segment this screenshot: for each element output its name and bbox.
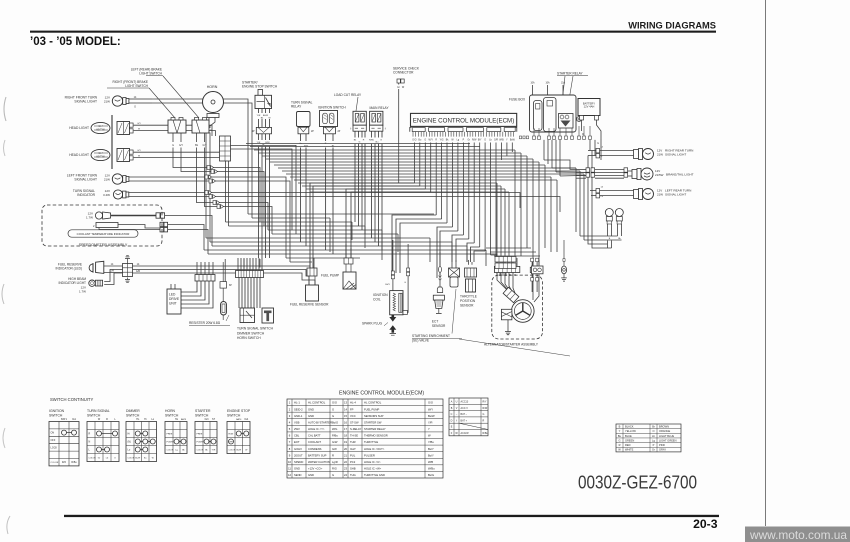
svg-text:BLACK: BLACK — [625, 424, 634, 428]
svg-text:ENGINE CONTROL MODULE(ECM): ENGINE CONTROL MODULE(ECM) — [339, 391, 424, 397]
svg-text:COLOR: COLOR — [167, 450, 174, 452]
svg-text:BROWN: BROWN — [659, 424, 669, 428]
svg-text:Y: Y — [619, 429, 621, 433]
svg-text:12V 4AH: 12V 4AH — [584, 105, 595, 109]
svg-text:P: P — [653, 443, 655, 447]
svg-text:R/Bu: R/Bu — [71, 461, 77, 464]
svg-text:14: 14 — [344, 407, 347, 411]
svg-text:INDICATOR: INDICATOR — [77, 193, 95, 197]
table engine stop switch continuity — [227, 409, 251, 454]
load cut relay — [334, 93, 366, 125]
wire starter switch lower drops — [257, 134, 271, 258]
page subtitle 03-05 MODEL — [30, 36, 121, 48]
wire right side bundle — [544, 160, 586, 176]
svg-text:BATTERY SUP: BATTERY SUP — [308, 453, 327, 457]
svg-text:20: 20 — [344, 447, 347, 451]
svg-text:DIMMER: DIMMER — [126, 409, 140, 413]
svg-text:Gr: Gr — [652, 448, 655, 452]
alternator — [512, 300, 535, 323]
wire ignition switch drops — [325, 134, 335, 254]
svg-text:INDICATOR (LED): INDICATOR (LED) — [56, 267, 82, 271]
svg-text:UNIT: UNIT — [169, 302, 177, 306]
lamp right front turn signal light — [65, 96, 111, 104]
svg-text:FREE: FREE — [167, 434, 173, 436]
lamp meter illumination 12V 1.7W — [86, 212, 111, 220]
svg-text:RESISTER 20W 6.8Ω: RESISTER 20W 6.8Ω — [189, 321, 221, 325]
svg-text:ECT: ECT — [432, 319, 438, 323]
ground symbol starter — [505, 332, 511, 335]
wire rear sub harness drops — [532, 262, 537, 292]
svg-text:HOLE IC <U>: HOLE IC <U> — [364, 460, 381, 464]
label head light upper rating — [96, 125, 105, 131]
svg-text:R/Y: R/Y — [483, 401, 487, 404]
svg-text:Bu/Y: Bu/Y — [428, 447, 434, 451]
svg-text:BAT4: BAT4 — [236, 418, 242, 421]
svg-text:PC2: PC2 — [350, 460, 356, 464]
svg-text:HEAD LIGHT: HEAD LIGHT — [69, 126, 89, 130]
svg-text:G: G — [332, 407, 334, 411]
svg-text:G: G — [618, 438, 620, 442]
svg-text:G/Y: G/Y — [179, 144, 184, 147]
svg-text:HOLE IC <OUT>: HOLE IC <OUT> — [364, 447, 385, 451]
svg-text:21W: 21W — [104, 99, 110, 103]
svg-text:10A: 10A — [530, 82, 535, 85]
svg-text:22: 22 — [344, 460, 347, 464]
switch front brake light — [107, 80, 175, 118]
svg-text:1.7W: 1.7W — [79, 289, 86, 293]
lamp license plate lights — [605, 209, 623, 225]
speedometer assembly enclosure — [42, 205, 162, 246]
wire starter switch mid drops — [257, 109, 272, 128]
svg-text:Bu: Bu — [144, 458, 146, 460]
watermark www.moto.com.ua — [745, 527, 850, 542]
wire coolant temp indicator 2 — [99, 222, 168, 232]
svg-text:IGNITION: IGNITION — [49, 409, 65, 413]
svg-text:2P: 2P — [311, 131, 314, 133]
svg-text:24: 24 — [344, 473, 347, 477]
wire ECM drops — [414, 143, 512, 259]
svg-text:LOAD CUT RELAY: LOAD CUT RELAY — [334, 93, 362, 97]
svg-text:P/Bu: P/Bu — [332, 434, 338, 438]
turn signal dimmer horn switch pod bar — [236, 271, 264, 278]
svg-text:ACC V: ACC V — [461, 407, 469, 410]
wire harness headlight feeds — [134, 123, 152, 158]
svg-text:R: R — [619, 443, 621, 447]
svg-text:LIGHT BLUE: LIGHT BLUE — [659, 434, 674, 438]
svg-text:(SE) VALVE: (SE) VALVE — [412, 338, 429, 342]
svg-text:GND-1: GND-1 — [294, 414, 303, 418]
page fold vertical line — [765, 0, 767, 526]
svg-text:GRAY: GRAY — [659, 448, 666, 452]
svg-text:STARTER RELAY: STARTER RELAY — [557, 72, 584, 76]
lamp head light upper — [69, 126, 89, 130]
label coolant temperature indicator — [68, 230, 138, 237]
svg-text:FP: FP — [350, 407, 354, 411]
wire high beam indicator — [104, 270, 132, 282]
connector ignition coil inline — [391, 268, 409, 279]
svg-text:R/W: R/W — [483, 407, 488, 410]
svg-text:FUEL RESERVE SENSOR: FUEL RESERVE SENSOR — [290, 303, 329, 307]
wire alternator bar stubs — [497, 258, 539, 267]
svg-text:21W: 21W — [657, 192, 663, 196]
drawing number 0030Z-GEZ-6700 — [578, 473, 697, 493]
svg-text:Br: Br — [652, 424, 655, 428]
svg-text:Bk/Y: Bk/Y — [385, 284, 390, 286]
svg-text:21W: 21W — [657, 152, 663, 156]
wire harness headlight corner drops — [152, 125, 220, 157]
svg-text:WHITE: WHITE — [625, 448, 634, 452]
connector alternator sub — [495, 257, 516, 269]
svg-text:SPEEDOMETER ASSEMBLY: SPEEDOMETER ASSEMBLY — [79, 243, 128, 247]
svg-text:THR: THR — [350, 440, 356, 444]
svg-text:N: N — [89, 441, 91, 444]
svg-text:17: 17 — [344, 427, 347, 431]
label turn signal dimmer horn switch — [237, 327, 274, 341]
svg-text:R: R — [89, 433, 91, 436]
svg-text:WATER CAUTION: WATER CAUTION — [308, 460, 330, 464]
wire left rear turn feed — [590, 191, 635, 196]
wire speedometer feeds corner — [165, 216, 212, 255]
svg-text:SHB: SHB — [350, 467, 356, 471]
wire harness upper crossing lines — [246, 144, 584, 193]
svg-text:SENSOR: SENSOR — [432, 324, 446, 328]
wire bottom component risers — [225, 244, 515, 288]
svg-text:LIGHT SWITCH: LIGHT SWITCH — [139, 72, 162, 76]
svg-text:TURN SIGNAL SWITCH: TURN SIGNAL SWITCH — [237, 327, 274, 331]
svg-text:THROTTLE GND: THROTTLE GND — [364, 473, 385, 477]
svg-text:G/O: G/O — [412, 140, 416, 142]
svg-text:12: 12 — [288, 473, 291, 477]
svg-text:W/Bu: W/Bu — [428, 467, 435, 471]
wire high beam indicator 2 — [104, 273, 132, 285]
svg-text:COLOR: COLOR — [229, 450, 236, 452]
alternator starter assembly — [492, 275, 543, 339]
wire ECM fanout elbows — [310, 183, 503, 278]
svg-text:POSITION: POSITION — [460, 299, 476, 303]
svg-text:COOLANT: COOLANT — [308, 440, 321, 444]
spark plug — [362, 315, 396, 335]
wire LED fan from connector — [181, 281, 213, 308]
wire battery leads — [582, 120, 602, 145]
label speedometer assembly — [79, 243, 128, 247]
table turn signal switch continuity — [87, 409, 119, 462]
connector main relay bar — [370, 125, 387, 131]
connector mid small — [220, 282, 232, 289]
svg-text:G: G — [172, 144, 174, 147]
svg-text:10: 10 — [288, 460, 291, 464]
fuse box pin row — [533, 126, 592, 139]
svg-text:G/O: G/O — [332, 401, 337, 405]
svg-text:HOLE IC <Y>: HOLE IC <Y> — [308, 427, 325, 431]
ignition coil — [373, 291, 407, 315]
horn — [203, 85, 224, 118]
svg-text:W/B: W/B — [428, 460, 433, 464]
svg-text:WIRING DIAGRAMS: WIRING DIAGRAMS — [628, 21, 716, 31]
svg-text:Bu/G: Bu/G — [428, 473, 434, 477]
fuel reserve sensor — [290, 268, 329, 307]
svg-text:RELAY: RELAY — [291, 105, 302, 109]
svg-text:G: G — [332, 414, 334, 418]
grommet oval — [561, 240, 566, 278]
table ECM terminals — [287, 399, 443, 478]
svg-text:SENSORS SUP: SENSORS SUP — [364, 414, 384, 418]
svg-text:B/Y: B/Y — [478, 140, 482, 142]
svg-text:HOLE IC <W>: HOLE IC <W> — [364, 467, 382, 471]
connector turn signal relay bar — [298, 127, 314, 134]
svg-text:21/5W: 21/5W — [655, 173, 664, 177]
svg-text:THROTTLE: THROTTLE — [364, 440, 378, 444]
svg-text:VSB: VSB — [294, 420, 300, 424]
engine control module ECM — [411, 113, 517, 126]
label head light lower rating — [96, 152, 105, 158]
wire ignition coil feeds — [385, 240, 408, 312]
svg-text:RUN: RUN — [229, 434, 234, 436]
svg-text:G/W: G/W — [332, 440, 338, 444]
svg-text:60/55W: 60/55W — [96, 155, 105, 158]
svg-text:IG4: IG4 — [244, 418, 249, 421]
svg-text:FUSE BOX: FUSE BOX — [509, 98, 526, 102]
svg-text:ALTERNATOR/STARTER ASSEMBLY: ALTERNATOR/STARTER ASSEMBLY — [484, 343, 539, 347]
svg-text:RED: RED — [625, 443, 631, 447]
lamp brake tail light — [586, 168, 628, 177]
lamp left rear turn signal — [596, 187, 604, 199]
svg-text:Gr: Gr — [397, 86, 400, 89]
svg-text:15A: 15A — [561, 82, 566, 85]
svg-text:SIGNAL LIGHT: SIGNAL LIGHT — [74, 100, 97, 104]
svg-text:DIMMER SWITCH: DIMMER SWITCH — [237, 331, 265, 335]
connector alternator left bar — [494, 266, 519, 272]
svg-text:Y/G: Y/G — [440, 140, 444, 142]
battery — [578, 99, 600, 121]
svg-text:6P: 6P — [229, 285, 232, 287]
switch continuity heading — [50, 397, 93, 402]
svg-text:GND: GND — [308, 414, 314, 418]
svg-text:W/Y: W/Y — [428, 407, 433, 411]
svg-text:FREE: FREE — [197, 434, 203, 436]
svg-text:SIGNAL LIGHT: SIGNAL LIGHT — [74, 178, 97, 182]
svg-text:HL CONTROL: HL CONTROL — [364, 401, 382, 405]
svg-text:SWITCH: SWITCH — [87, 414, 101, 418]
svg-text:LIGHT GREEN: LIGHT GREEN — [659, 438, 677, 442]
svg-text:G/R: G/R — [136, 270, 141, 273]
svg-text:ST-SW: ST-SW — [350, 420, 359, 424]
svg-text:B: B — [619, 424, 621, 428]
inline bullet connectors column — [205, 166, 224, 209]
svg-text:Lg/R: Lg/R — [332, 460, 338, 464]
svg-text:ENGINE STOP: ENGINE STOP — [227, 409, 251, 413]
svg-text:SWITCH: SWITCH — [165, 414, 179, 418]
scan artifact arcs left margin — [2, 97, 10, 534]
ect sensor — [432, 267, 446, 328]
svg-text:PUSH: PUSH — [167, 442, 173, 444]
connector ignition switch bar — [323, 127, 340, 134]
connector below fuse box row — [519, 136, 528, 139]
wire horn drops — [205, 118, 215, 141]
svg-text:W/B: W/B — [499, 140, 504, 142]
svg-text:LIGHT SWITCH: LIGHT SWITCH — [125, 84, 148, 88]
svg-text:COLOR: COLOR — [89, 458, 97, 460]
svg-text:18: 18 — [344, 434, 347, 438]
LED drive unit — [167, 289, 181, 314]
svg-text:Bu/Y: Bu/Y — [428, 453, 434, 457]
svg-text:SEID-2: SEID-2 — [294, 407, 303, 411]
svg-text:LOCK: LOCK — [51, 446, 58, 449]
svg-text:EOT: EOT — [294, 440, 300, 444]
connector load cut relay bar — [350, 125, 366, 131]
svg-text:2P: 2P — [338, 131, 341, 133]
ground symbol rear harness — [561, 278, 567, 281]
terminal bolt — [577, 117, 582, 122]
wire brake tail feeds — [576, 169, 634, 178]
svg-text:CAL BATT: CAL BATT — [308, 434, 321, 438]
wire fuse battery drops — [544, 140, 601, 176]
wire lower distribution — [486, 248, 540, 256]
wire license lights drops — [608, 224, 622, 248]
svg-text:GND: GND — [308, 407, 314, 411]
wire fuel reserve harness — [133, 263, 316, 285]
svg-text:ACC/W: ACC/W — [461, 432, 470, 435]
lamp left front turn signal light — [67, 174, 110, 182]
svg-text:YELLOW: YELLOW — [625, 429, 636, 433]
svg-text:(N): (N) — [128, 441, 132, 444]
svg-text:20-3: 20-3 — [693, 517, 718, 531]
svg-text:BuW: BuW — [510, 140, 516, 142]
svg-text:PUL: PUL — [350, 453, 356, 457]
turn signal relay — [291, 101, 313, 127]
starter motor — [501, 309, 512, 320]
lamp right rear turn signal — [596, 147, 604, 159]
svg-text:HEAD LIGHT: HEAD LIGHT — [69, 153, 89, 157]
svg-text:CONNECTOR: CONNECTOR — [393, 71, 414, 75]
svg-text:VCC: VCC — [350, 414, 356, 418]
wire LED drive unit leads — [171, 284, 175, 289]
svg-text:Bu: Bu — [618, 434, 622, 438]
svg-text:HORN: HORN — [207, 85, 218, 89]
alternator plug diagonal — [503, 287, 519, 302]
svg-text:ST: ST — [212, 418, 216, 421]
svg-text:Y: Y — [428, 427, 430, 431]
svg-text:PUSH: PUSH — [197, 442, 203, 444]
resistor 20W 6.8ohm — [189, 262, 230, 325]
svg-text:STARTER RELAY: STARTER RELAY — [364, 427, 386, 431]
wire fuel reserve to connector — [104, 263, 123, 273]
svg-text:ON: ON — [51, 432, 55, 435]
wire upper crossing right corner drops — [497, 150, 584, 265]
svg-text:Bk/W: Bk/W — [236, 450, 241, 452]
svg-text:SWITCH: SWITCH — [126, 414, 140, 418]
switch dimmer horn unit — [262, 308, 274, 323]
connector headlight sub harness — [220, 136, 231, 161]
svg-text:SWITCH: SWITCH — [49, 414, 63, 418]
svg-text:BRAKE/TAIL LIGHT: BRAKE/TAIL LIGHT — [666, 173, 694, 177]
svg-text:AUTO BYSTARTER: AUTO BYSTARTER — [308, 420, 332, 424]
wire left turn signal feeds — [129, 177, 560, 262]
svg-text:2WV: 2WV — [294, 427, 300, 431]
svg-text:COOLANT TEMPERATURE INDICATOR: COOLANT TEMPERATURE INDICATOR — [77, 232, 130, 236]
svg-text:G/Y: G/Y — [137, 123, 141, 125]
svg-text:16: 16 — [344, 420, 347, 424]
svg-text:www.moto.com.ua: www.moto.com.ua — [749, 528, 847, 542]
svg-text:G: G — [380, 140, 382, 142]
wire turn signal relay drops — [299, 134, 308, 246]
header rule — [30, 31, 716, 33]
wire main relay drops — [369, 131, 382, 250]
svg-text:TURN SIGNAL: TURN SIGNAL — [87, 409, 110, 413]
svg-text:ORANGE: ORANGE — [659, 429, 671, 433]
svg-text:Bu/O: Bu/O — [332, 420, 338, 424]
svg-text:MAIN RELAY: MAIN RELAY — [370, 106, 390, 110]
svg-text:BLUE: BLUE — [625, 434, 632, 438]
wire load cut relay drops — [354, 131, 365, 234]
svg-text:21W: 21W — [104, 177, 110, 181]
svg-text:G/O: G/O — [428, 401, 433, 405]
svg-text:Gr: Gr — [468, 139, 471, 142]
svg-text:R: R — [106, 418, 108, 421]
svg-text:GND: GND — [294, 467, 300, 471]
svg-text:21: 21 — [344, 453, 347, 457]
main relay — [370, 106, 390, 125]
svg-text:GW: GW — [332, 447, 337, 451]
switch turn signal unit — [240, 308, 255, 323]
table ignition switch continuity — [49, 409, 79, 466]
svg-text:G/R: G/R — [494, 140, 498, 142]
wire right front turn signal — [129, 96, 152, 108]
svg-text:Bu/W: Bu/W — [428, 414, 435, 418]
svg-text:COLOR: COLOR — [128, 458, 135, 460]
svg-text:Y/R: Y/R — [212, 450, 216, 452]
svg-text:0030Z-GEZ-6700: 0030Z-GEZ-6700 — [578, 473, 697, 493]
lamp fuel reserve indicator LED — [56, 261, 104, 273]
svg-text:G/Y: G/Y — [137, 150, 141, 152]
fuel pump — [321, 258, 356, 289]
svg-text:OFF: OFF — [51, 439, 56, 442]
svg-text:HORN: HORN — [165, 409, 176, 413]
handlebar switch connector bar — [195, 275, 215, 282]
starter relay unit in fuse box — [559, 114, 574, 129]
svg-text:D: D — [451, 419, 453, 422]
svg-text:STARTER: STARTER — [195, 409, 211, 413]
svg-text:’03 - ’05 MODEL:: ’03 - ’05 MODEL: — [30, 36, 121, 48]
svg-text:O: O — [601, 156, 603, 158]
starter relay — [557, 72, 588, 113]
page number 20-3 — [693, 517, 718, 531]
svg-text:ACC13: ACC13 — [461, 401, 469, 404]
wire starter motor ground — [507, 320, 509, 332]
svg-text:SIGNAL LIGHT: SIGNAL LIGHT — [665, 153, 686, 157]
svg-text:HL-4: HL-4 — [350, 401, 356, 405]
svg-text:HL-1: HL-1 — [294, 401, 300, 405]
throttle position sensor — [460, 268, 477, 308]
table dimmer switch continuity — [126, 409, 157, 462]
svg-text:G: G — [332, 473, 334, 477]
service check connector — [393, 67, 420, 90]
svg-text:COIL: COIL — [373, 298, 381, 302]
header title WIRING DIAGRAMS — [628, 21, 716, 31]
svg-text:OFF: OFF — [229, 442, 234, 444]
svg-text:19: 19 — [344, 440, 347, 444]
wire mid band right elbows — [330, 218, 497, 266]
svg-text:COLOR: COLOR — [197, 450, 204, 452]
svg-text:DRIVE: DRIVE — [169, 297, 180, 301]
svg-text:R/G: R/G — [332, 467, 337, 471]
brake switch connector front — [168, 118, 186, 134]
connector alternator right bar — [530, 267, 541, 272]
svg-text:BAT1: BAT1 — [61, 418, 67, 421]
svg-text:G: G — [483, 413, 485, 416]
fuse box — [509, 95, 576, 132]
svg-text:Y/R: Y/R — [428, 420, 433, 424]
wire fuse box top stubs — [530, 82, 565, 96]
